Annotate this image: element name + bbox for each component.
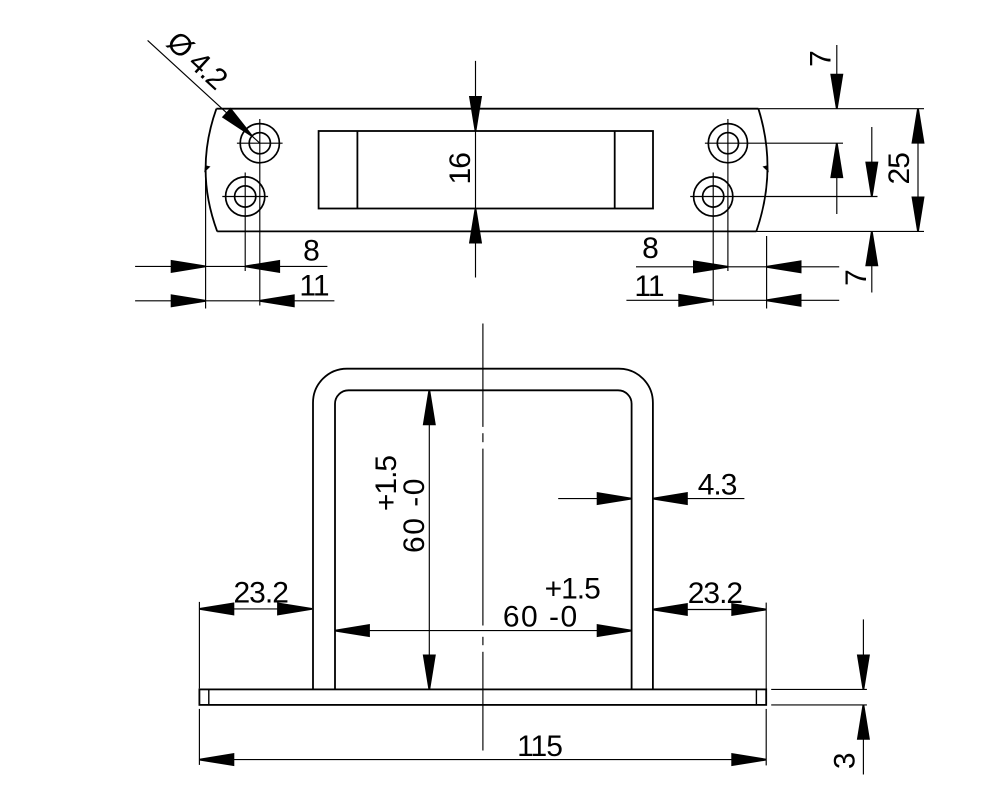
bend line right	[614, 131, 616, 209]
dim 23.2 left	[199, 577, 312, 689]
hole H3 upper-right	[705, 119, 843, 271]
dim 60 vertical with tolerance	[370, 390, 435, 689]
dim 11 left	[135, 270, 334, 307]
dim 60 horizontal with tolerance	[335, 573, 632, 637]
extension line right plate tangent	[766, 236, 768, 309]
dim 4.3 wall thickness	[558, 469, 744, 505]
top view plate outline	[206, 109, 768, 232]
svg-text:60 -0: 60 -0	[503, 600, 579, 633]
dim 8 left	[135, 235, 327, 272]
bend region rectangle	[319, 131, 653, 209]
dim 7 bottom right	[840, 127, 877, 293]
svg-text:11: 11	[299, 270, 328, 303]
svg-text:60 -0: 60 -0	[398, 477, 431, 553]
dim 25 right	[883, 109, 924, 232]
svg-text:3: 3	[828, 753, 861, 769]
svg-text:16: 16	[444, 153, 477, 185]
dim 16 vertical	[444, 61, 481, 278]
leader line for hole diameter	[148, 40, 260, 143]
extension lines right plate edges	[756, 109, 924, 232]
dim 23.2 right	[653, 577, 766, 689]
svg-text:115: 115	[517, 730, 562, 763]
svg-text:4.3: 4.3	[698, 469, 737, 502]
svg-text:23.2: 23.2	[234, 577, 289, 610]
inner U profile	[335, 390, 632, 689]
svg-text:23.2: 23.2	[688, 577, 743, 610]
dim 115 overall	[199, 709, 766, 766]
svg-text:7: 7	[840, 270, 873, 286]
hole H4 lower-right	[690, 173, 877, 306]
right arc tick	[763, 165, 769, 172]
hole H2 lower-left	[222, 173, 268, 272]
bend line left	[356, 131, 358, 209]
dim 3 plate thickness	[771, 619, 869, 774]
hole H1 upper-left	[237, 119, 283, 306]
centerline bottom view	[482, 324, 484, 751]
svg-text:8: 8	[642, 232, 658, 265]
dim 11 right	[626, 270, 839, 306]
outer U profile	[313, 369, 653, 690]
dim 8 right	[636, 232, 839, 272]
svg-text:7: 7	[805, 51, 838, 67]
svg-text:11: 11	[634, 270, 663, 303]
svg-text:8: 8	[303, 235, 319, 268]
base plate end tick left	[208, 689, 210, 705]
base plate end tick right	[755, 689, 757, 705]
svg-text:25: 25	[883, 153, 916, 185]
base plate	[199, 689, 766, 705]
extension line left plate tangent	[205, 172, 207, 309]
left arc tick	[204, 165, 210, 172]
dim 7 top right	[805, 45, 843, 214]
